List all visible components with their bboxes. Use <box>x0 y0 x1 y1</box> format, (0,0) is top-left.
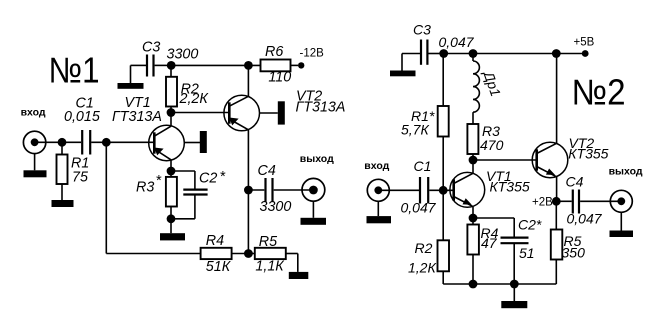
resistor R6 110 <box>261 44 299 85</box>
resistor R2 2,2K <box>166 65 209 112</box>
resistor R3* <box>136 171 177 219</box>
svg-text:+5В: +5В <box>574 36 595 48</box>
node Dr1 top <box>469 49 478 58</box>
svg-text:3300: 3300 <box>260 199 292 215</box>
svg-text:75: 75 <box>72 170 88 186</box>
capacitor C4 0,047 (c2) <box>556 174 621 227</box>
wire emitter node down to R4/R5 <box>247 190 249 254</box>
svg-text:*: * <box>220 169 226 185</box>
node C1/R1/R2/base <box>439 186 448 195</box>
transistor VT2 GT313A <box>224 89 346 131</box>
output connector (c2) <box>609 166 643 213</box>
resistor R4 47 (c2) <box>467 218 498 284</box>
svg-text:R3: R3 <box>136 180 154 196</box>
resistor R5 350 (c2) <box>551 201 585 284</box>
ground under output (c2) <box>610 212 634 237</box>
svg-text:R6: R6 <box>265 44 283 60</box>
node rail / R6 / VT2 collector <box>244 61 253 70</box>
svg-text:350: 350 <box>562 244 586 260</box>
node R1 junction <box>58 138 67 147</box>
svg-text:выход: выход <box>609 166 643 178</box>
capacitor C3 3300 <box>131 40 199 84</box>
transistor VT1 GT313A <box>112 95 184 161</box>
wire top rail <box>171 64 260 66</box>
transistor VT1 KT355 (c2) <box>450 168 530 207</box>
wire to VT2 base <box>171 112 229 114</box>
svg-text:0,015: 0,015 <box>64 109 100 125</box>
svg-text:-12В: -12В <box>300 48 325 60</box>
wire feedback vertical <box>105 142 107 253</box>
svg-text:110: 110 <box>268 70 291 86</box>
svg-text:выход: выход <box>300 153 334 165</box>
wire feedback horizontal to R4 <box>106 253 200 255</box>
bottom rail (c2) <box>443 283 556 285</box>
svg-text:R2: R2 <box>415 240 433 256</box>
wire C1 to VT1 base <box>91 141 154 143</box>
ground at bottom rail (c2) <box>501 284 527 308</box>
svg-text:C4: C4 <box>566 174 584 190</box>
capacitor C2* (parallel with R3) <box>171 169 226 219</box>
wire input to C1 <box>35 141 81 143</box>
svg-text:вход: вход <box>364 160 389 172</box>
svg-text:*: * <box>156 173 162 189</box>
svg-text:№2: №2 <box>572 72 626 113</box>
svg-text:0,047: 0,047 <box>401 199 437 215</box>
wire VT2 emitter down (c2) <box>556 177 558 202</box>
input connector (c2) <box>364 160 389 202</box>
capacitor C1 0,047 (c2) <box>378 158 453 215</box>
svg-text:R5: R5 <box>259 234 277 250</box>
svg-text:+2В: +2В <box>532 197 553 209</box>
svg-text:ГТ313А: ГТ313А <box>296 100 346 116</box>
resistor R4 51K <box>201 233 249 275</box>
resistor R2 1,2K (c2) <box>408 190 449 284</box>
output connector (vyhod) <box>300 153 334 201</box>
svg-text:47: 47 <box>481 235 498 251</box>
capacitor C4 3300 <box>248 163 313 215</box>
svg-text:C3: C3 <box>142 40 160 56</box>
svg-text:51: 51 <box>519 245 535 261</box>
wire VT2 collector up (c2) <box>556 54 558 144</box>
terminal -12V <box>298 48 324 69</box>
node VT2 collector rail <box>552 49 561 58</box>
node collector/R2/VT2-base <box>167 108 176 117</box>
node emitter / C4 <box>244 186 253 195</box>
ground under R3 <box>160 219 185 241</box>
resistor R1 75 <box>57 142 90 200</box>
VT2 case lead + case ground bar <box>260 101 285 124</box>
svg-text:C2: C2 <box>199 171 217 187</box>
input connector X1 (vhod) <box>21 106 46 153</box>
resistor R3 470 (c2) <box>467 123 503 160</box>
node R4/rail <box>469 280 478 289</box>
wire to VT2 base (c2) <box>473 159 537 161</box>
ground under output connector <box>301 201 327 225</box>
svg-text:1,1К: 1,1К <box>255 258 285 274</box>
node base/feedback junction <box>102 138 111 147</box>
svg-text:5,7К: 5,7К <box>401 122 429 138</box>
inductor Dr1 <box>473 54 504 125</box>
node R3 bottom <box>167 214 176 223</box>
terminal +5V <box>574 36 595 57</box>
resistor R5 1,1K <box>248 234 297 274</box>
svg-text:C2*: C2* <box>518 217 542 233</box>
svg-text:R4: R4 <box>206 233 224 249</box>
wire VT2 emitter down <box>247 130 249 190</box>
svg-text:51К: 51К <box>206 259 232 275</box>
svg-text:2,2К: 2,2К <box>179 91 210 107</box>
node C2/rail/ground <box>510 280 519 289</box>
svg-text:3300: 3300 <box>167 47 199 63</box>
node emitter/R4/C2 (c2) <box>469 214 478 223</box>
node R4/R5 <box>244 249 253 258</box>
node emitter/R3/C2 <box>167 167 176 176</box>
svg-text:C3: C3 <box>413 21 431 37</box>
svg-text:C1: C1 <box>414 158 432 174</box>
svg-text:0,047: 0,047 <box>439 34 475 50</box>
svg-text:вход: вход <box>21 106 46 118</box>
capacitor C2* 51 (c2) <box>473 217 542 285</box>
ground after R5 <box>289 272 309 279</box>
capacitor C1 0,015 <box>64 96 100 155</box>
node +2V emitter/C4/R5 <box>552 197 561 206</box>
svg-text:КТ355: КТ355 <box>568 145 608 161</box>
wire VT1 emitter down <box>170 160 172 171</box>
transistor VT2 KT355 (c2) <box>532 135 608 178</box>
ground under R1 <box>52 200 74 207</box>
node C3/R1 <box>439 49 448 58</box>
node R3/VT1 collector/VT2 base <box>469 156 478 165</box>
wire VT1 collector up (c2) <box>472 160 474 173</box>
node top rail / C3 <box>167 61 176 70</box>
svg-text:КТ355: КТ355 <box>490 178 530 194</box>
capacitor C3 0,047 (c2) <box>402 21 475 70</box>
ground under input connector <box>24 154 47 178</box>
svg-text:1,2К: 1,2К <box>408 260 436 276</box>
wire VT2 collector up <box>247 65 249 96</box>
wire VT1 emitter down (c2) <box>472 207 474 218</box>
wire VT1 collector up <box>170 113 172 127</box>
resistor R1* 5,7K <box>401 54 449 191</box>
VT1 case lead + case ground bar <box>184 131 207 153</box>
svg-text:№1: №1 <box>49 50 100 91</box>
ground under input (c2) <box>367 201 392 223</box>
wire top rail (c2) <box>444 53 582 55</box>
svg-text:C4: C4 <box>258 163 276 179</box>
ground at C3 <box>118 83 144 89</box>
svg-text:0,047: 0,047 <box>567 210 603 226</box>
svg-text:ГТ313А: ГТ313А <box>112 109 162 125</box>
svg-text:470: 470 <box>480 137 504 153</box>
ground at C3 (c2) <box>390 71 416 77</box>
